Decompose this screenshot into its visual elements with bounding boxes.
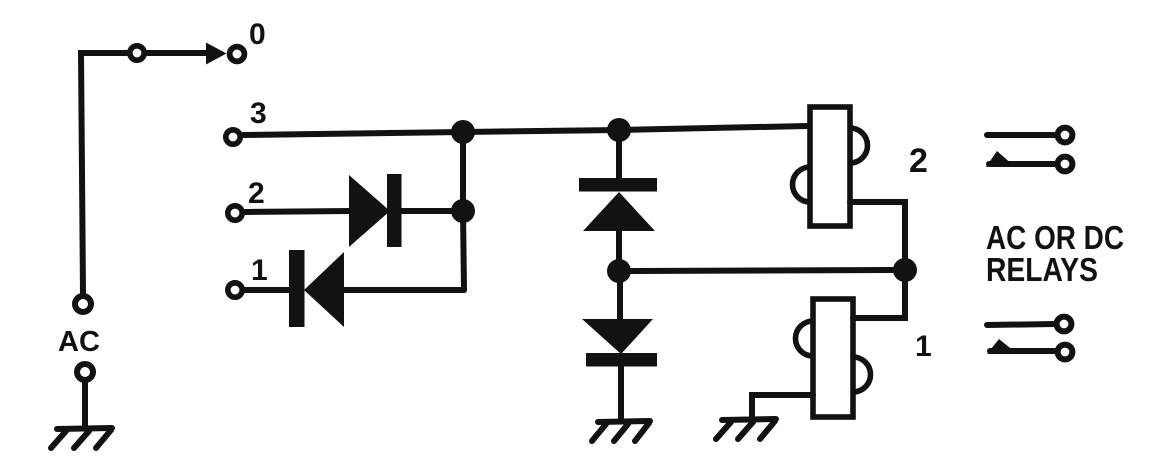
relay K2 contact: armature wedge [986, 151, 1013, 167]
switch throw terminal 0 [230, 47, 245, 62]
relay coil K1 left loop [796, 321, 814, 356]
junction: net3 / diode branch [607, 118, 631, 142]
relay K1 contact: armature wedge [987, 339, 1015, 354]
label 1 [251, 254, 268, 287]
relay K2 contact: moving arm [989, 161, 1056, 167]
diode D1 [289, 250, 344, 327]
svg-text:0: 0 [249, 18, 266, 51]
relay K1 contact: fixed terminal [1057, 317, 1072, 332]
wire: relay K1 to ground [752, 395, 813, 419]
diode D4 [582, 319, 657, 367]
label 3 [250, 97, 267, 130]
relay K1 contact: moving arm [990, 348, 1056, 354]
wire: diode D2 to node B [401, 208, 460, 214]
svg-text:3: 3 [250, 97, 267, 130]
svg-text:RELAYS: RELAYS [986, 251, 1098, 288]
relay K2 contact: moving terminal [1058, 157, 1073, 172]
relay K1 contact: fixed arm [987, 324, 1055, 325]
junction: node D [893, 258, 917, 282]
wire: node D to relay K1 [853, 270, 905, 318]
wire: lower AC terminal to ground [82, 382, 88, 428]
AC input terminal lower [77, 364, 93, 380]
wire: terminal 2 to diode D2 [245, 211, 351, 212]
relay coil K1 body [813, 299, 853, 417]
relay coil K2 right loop [850, 128, 868, 163]
relay K1 contact: moving terminal [1058, 345, 1073, 360]
ground (relay K1) [716, 419, 776, 439]
svg-text:2: 2 [909, 142, 928, 180]
wire: diode D1 to vertical bus [343, 287, 464, 293]
relay coil K2 left loop [793, 167, 811, 202]
wire: junction to diode D3 [616, 130, 622, 180]
wire: node C to diode D4 [617, 271, 623, 320]
wire: relay K2 to node D [850, 202, 905, 262]
wire: node C to node D (relay common) [631, 270, 893, 271]
wire: switch arm [147, 50, 207, 56]
junction: net2 / bus [451, 199, 475, 223]
wire: diode D3 to node C [616, 230, 622, 271]
AC input terminal upper [75, 296, 91, 312]
ground (diode branch) [592, 421, 650, 441]
wire: vertical bus at node B [463, 132, 464, 290]
svg-text:1: 1 [915, 330, 932, 363]
relay K2 contact: fixed terminal [1058, 128, 1073, 143]
ground (AC input) [51, 428, 112, 448]
svg-text:1: 1 [251, 254, 268, 287]
diode D3 [579, 178, 657, 231]
diode D2 [349, 174, 402, 247]
relay coil K2 body [810, 107, 850, 226]
switch arrow head [206, 43, 227, 65]
junction: node C [607, 259, 631, 283]
relay coil K1 right loop [853, 357, 871, 392]
relay K2 contact: fixed arm [987, 132, 1056, 138]
wire: switch feed, corner to left vertical [81, 53, 129, 293]
wire: diode D4 to ground [618, 366, 624, 421]
wire: terminal 1 to diode D1 [245, 287, 291, 293]
label 2 (relay K2) [909, 142, 928, 180]
label AC OR DC [986, 219, 1124, 256]
label AC [58, 326, 100, 358]
switch S1 pole terminal [130, 46, 144, 60]
label RELAYS [986, 251, 1098, 288]
label 1 (relay K1) [915, 330, 932, 363]
terminal 3 [226, 130, 240, 144]
junction: net3 / bus [451, 120, 475, 144]
terminal 2 [228, 206, 242, 220]
label 0 [249, 18, 266, 51]
terminal 1 [228, 283, 242, 297]
svg-text:AC: AC [58, 326, 100, 358]
svg-text:2: 2 [248, 177, 265, 210]
label 2 [248, 177, 265, 210]
wire: terminal 3 to relay 2 (net 3) [243, 126, 807, 135]
